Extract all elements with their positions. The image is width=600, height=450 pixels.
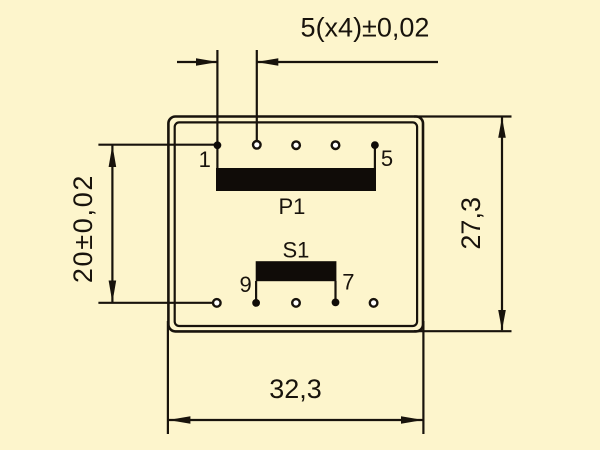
open hole top row 3	[292, 141, 300, 149]
pin 5 (filled pad)	[371, 141, 379, 149]
pin 7 (filled pad)	[332, 299, 340, 307]
secondary winding bar S1	[256, 261, 337, 281]
dimension line left segment (5(x4) dim)	[177, 61, 218, 63]
wire: stub S1 bar to pin 9	[255, 281, 257, 303]
open hole bottom row 5	[370, 299, 378, 307]
svg-text:5: 5	[381, 146, 393, 171]
open hole top row 2	[253, 141, 261, 149]
svg-text:27,3: 27,3	[456, 197, 486, 250]
dimension line vertical (27,3 dim)	[501, 118, 503, 331]
svg-text:7: 7	[342, 270, 354, 295]
svg-text:P1: P1	[278, 194, 305, 219]
transformer body inner outline	[175, 122, 417, 326]
svg-text:S1: S1	[282, 238, 309, 263]
wire: right extension line of 32,3 dim	[422, 321, 424, 434]
svg-text:1: 1	[199, 147, 211, 172]
svg-text:5(x4)±0,02: 5(x4)±0,02	[301, 13, 430, 43]
wire: bottom extension line of 20 dim to bottom-left hole	[98, 302, 212, 304]
wire: top extension line of 20 dim to pin 1	[98, 144, 217, 146]
svg-text:20±0,02: 20±0,02	[68, 174, 98, 283]
wire: extension line hole2 (top dim)	[256, 50, 258, 145]
pin 9 (filled pad)	[252, 299, 260, 307]
primary winding bar P1	[216, 168, 376, 191]
dimension line right segment (5(x4) dim)	[257, 61, 438, 63]
wire: bottom extension line of 27,3 dim	[414, 330, 512, 332]
wire: stub pin 5 to P1 bar	[374, 145, 376, 168]
arrowhead down-pointing (27,3 bottom)	[498, 310, 506, 331]
arrowhead left-pointing (32,3 left)	[168, 416, 190, 424]
arrowhead right-pointing (32,3 right)	[401, 416, 423, 424]
pin 1 (filled pad)	[214, 141, 222, 149]
svg-text:9: 9	[239, 272, 251, 297]
dimension line vertical (20 dim)	[111, 145, 113, 303]
open hole bottom row 1	[213, 299, 221, 307]
dimension line horizontal (32,3 dim)	[168, 419, 423, 421]
arrowhead up-pointing (20 dim top)	[109, 145, 117, 167]
arrowhead down-pointing (20 dim bottom)	[109, 281, 117, 303]
wire: stub S1 bar to pin 7	[334, 281, 336, 303]
svg-text:32,3: 32,3	[269, 374, 322, 404]
arrowhead right-pointing at pin1 extension	[196, 58, 218, 66]
arrowhead up-pointing (27,3 top)	[498, 117, 506, 138]
wire: top extension line of 27,3 dim	[414, 115, 512, 117]
open hole bottom row 3	[292, 299, 300, 307]
wire: extension line pin1 (top dim) down through pin 1 to P1 bar	[216, 50, 218, 168]
open hole top row 4	[332, 141, 340, 149]
transformer body outer outline	[168, 117, 423, 332]
arrowhead left-pointing at hole2 extension	[256, 58, 278, 66]
wire: left extension line of 32,3 dim	[167, 321, 169, 434]
